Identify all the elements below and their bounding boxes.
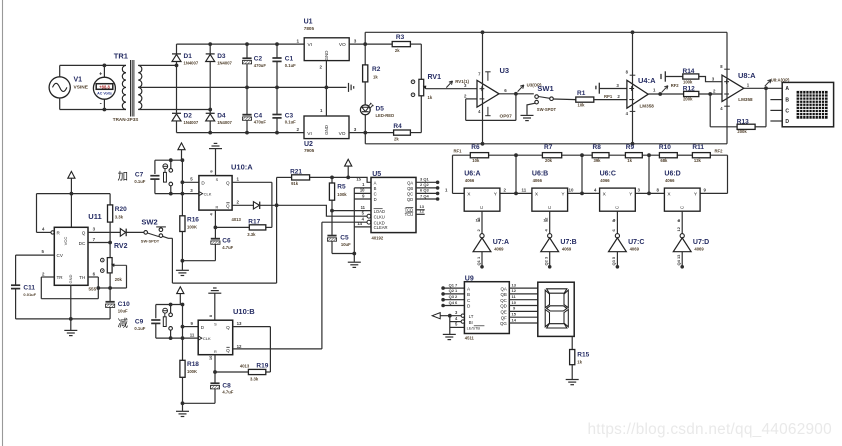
- reference cell at U4 non-inverting input: [596, 83, 627, 94]
- svg-text:R9: R9: [626, 144, 635, 151]
- wire U9 segment outputs: [509, 282, 538, 323]
- svg-text:100k: 100k: [683, 79, 693, 84]
- svg-text:0.1uF: 0.1uF: [285, 63, 296, 68]
- svg-text:68k: 68k: [660, 158, 668, 163]
- svg-text:10: 10: [512, 300, 517, 305]
- resistor R11 12k: [692, 144, 710, 163]
- regulator U2 7905: [304, 116, 357, 153]
- svg-text:6: 6: [93, 271, 96, 276]
- svg-text:QA: QA: [407, 180, 413, 185]
- svg-text:R18: R18: [187, 361, 199, 368]
- inverter U7:B 4069: [541, 234, 577, 252]
- resistor R15 1k: [570, 336, 590, 379]
- svg-text:R: R: [216, 206, 219, 210]
- svg-text:4: 4: [362, 217, 365, 222]
- resistor R3 2k: [365, 34, 421, 53]
- potentiometer RV1 1k: [411, 44, 441, 133]
- svg-text:100K: 100K: [187, 369, 197, 374]
- svg-text:7: 7: [93, 237, 96, 242]
- svg-text:2: 2: [42, 271, 45, 276]
- wire U5 output Q1: [416, 177, 439, 185]
- svg-text:2: 2: [476, 229, 481, 232]
- svg-text:VSINE: VSINE: [74, 85, 89, 91]
- svg-text:9: 9: [704, 188, 707, 193]
- svg-text:CLEAR: CLEAR: [374, 225, 388, 230]
- wire node R9-R10 to switches: [634, 155, 664, 195]
- svg-text:R10: R10: [659, 144, 671, 151]
- svg-text:Q: Q: [226, 203, 230, 208]
- svg-text:4.7uF: 4.7uF: [222, 245, 233, 250]
- transformer TR1: [113, 52, 142, 123]
- svg-text:4: 4: [455, 316, 458, 321]
- svg-text:Q4 6: Q4 6: [449, 300, 458, 305]
- svg-text:D5: D5: [376, 106, 385, 113]
- wire U10:B Qbar to CLKD column: [233, 348, 322, 350]
- svg-text:4: 4: [594, 188, 597, 193]
- svg-text:DC: DC: [79, 241, 86, 246]
- svg-text:D2: D2: [184, 112, 193, 119]
- svg-text:4066: 4066: [465, 178, 475, 183]
- svg-text:U7:D: U7:D: [693, 239, 709, 246]
- svg-text:Q3 2: Q3 2: [449, 294, 458, 299]
- svg-text:1N4007: 1N4007: [184, 120, 199, 125]
- wire U4 power pins: [626, 32, 636, 144]
- wire U7:A input terminal Q1: [476, 252, 484, 269]
- wire U9 input Q2: [441, 288, 464, 296]
- svg-text:R: R: [214, 350, 217, 354]
- analog switch U6:C 4066: [600, 171, 636, 212]
- svg-text:1N4007: 1N4007: [184, 61, 199, 66]
- svg-text:QD: QD: [500, 304, 507, 309]
- wire U6:A control pin: [476, 211, 482, 233]
- svg-text:GND: GND: [68, 274, 73, 283]
- svg-text:U2: U2: [304, 141, 313, 148]
- resistor R12 200k: [683, 85, 699, 101]
- svg-text:U7:B: U7:B: [560, 239, 576, 246]
- svg-text:39k: 39k: [594, 158, 602, 163]
- svg-text:C5: C5: [340, 235, 349, 242]
- capacitor C7 0.1uF: [134, 171, 159, 193]
- svg-text:C8: C8: [222, 382, 231, 389]
- analog switch U6:A 4066: [464, 171, 500, 212]
- svg-text:U11: U11: [88, 212, 101, 221]
- wire V1 loop: [60, 65, 126, 109]
- svg-text:4: 4: [626, 111, 629, 116]
- wire left border line: [2, 0, 4, 446]
- svg-text:GND: GND: [324, 125, 329, 135]
- svg-text:3.3k: 3.3k: [250, 377, 259, 382]
- svg-text:SW-SPDT: SW-SPDT: [141, 238, 160, 243]
- wire U7:B input terminal Q2: [544, 252, 552, 269]
- svg-text:C: C: [615, 206, 620, 209]
- svg-text:R19: R19: [256, 363, 268, 370]
- wire subtract button bottom rail to CLK: [156, 332, 198, 340]
- ground mid-rail: [349, 83, 354, 92]
- svg-text:1k: 1k: [627, 158, 632, 163]
- svg-text:3: 3: [190, 188, 193, 193]
- resistor R1 10k: [576, 90, 627, 108]
- svg-text:GND: GND: [324, 51, 329, 61]
- svg-text:20k: 20k: [115, 277, 123, 282]
- wire U5 output Q3: [416, 188, 439, 196]
- svg-text:R4: R4: [393, 123, 402, 130]
- svg-text:QC: QC: [407, 191, 413, 196]
- svg-text:V1: V1: [74, 77, 83, 84]
- svg-text:D: D: [374, 197, 377, 202]
- svg-text:4069: 4069: [494, 246, 504, 251]
- svg-text:TRAN-2P3S: TRAN-2P3S: [113, 117, 139, 122]
- wire U7:C input terminal Q3: [611, 252, 619, 269]
- svg-text:0.1uF: 0.1uF: [134, 326, 145, 331]
- wire U5 TCU stub: [416, 209, 425, 215]
- svg-text:SW-SPDT: SW-SPDT: [537, 107, 557, 112]
- svg-text:3: 3: [638, 188, 641, 193]
- svg-text:R21: R21: [290, 168, 302, 175]
- svg-text:C: C: [679, 206, 684, 209]
- svg-text:Q1 1: Q1 1: [476, 256, 481, 265]
- wire VCC to U10:B D pin: [181, 305, 199, 361]
- svg-text:U8:A: U8:A: [738, 71, 756, 80]
- svg-text:C4: C4: [254, 112, 263, 119]
- capacitor C1 0.1uF: [272, 44, 296, 87]
- diode D2 1N4007: [172, 65, 199, 132]
- flip-flop U10:B 4013: [198, 307, 255, 355]
- resistor R6 10k: [470, 144, 488, 163]
- svg-text:RV1(1): RV1(1): [455, 79, 469, 84]
- wire R14 to U8 non-inverting input: [699, 77, 722, 82]
- svg-text:D3: D3: [217, 53, 226, 60]
- svg-text:2 Q2: 2 Q2: [420, 182, 429, 187]
- ground below R16: [176, 259, 189, 276]
- svg-text:1: 1: [320, 108, 323, 113]
- wire U10:A Q to R17: [232, 182, 272, 227]
- svg-text:QG: QG: [500, 321, 507, 326]
- svg-text:U3: U3: [500, 66, 510, 75]
- svg-text:U9: U9: [465, 275, 474, 282]
- svg-text:5: 5: [455, 322, 458, 327]
- svg-text:R1: R1: [577, 90, 586, 97]
- svg-text:2: 2: [320, 65, 323, 70]
- potentiometer RV2 20k: [101, 243, 128, 282]
- svg-text:LM358: LM358: [738, 97, 753, 102]
- svg-text:4: 4: [478, 109, 481, 114]
- svg-text:4.7uF: 4.7uF: [222, 390, 233, 395]
- svg-text:减: 减: [118, 317, 129, 329]
- svg-text:-: -: [100, 101, 102, 108]
- svg-text:TCU: TCU: [405, 212, 414, 217]
- wire U9 input Q1: [441, 282, 464, 290]
- svg-text:4066: 4066: [665, 178, 675, 183]
- svg-text:Q: Q: [226, 325, 230, 330]
- svg-text:LE/STB: LE/STB: [467, 326, 481, 331]
- svg-text:CLK: CLK: [203, 336, 211, 341]
- wire diode junction to SW2 throw: [163, 205, 277, 283]
- wire secondary bottom: [138, 108, 212, 112]
- capacitor C8 4.7uF: [183, 372, 234, 403]
- svg-text:U1: U1: [304, 19, 313, 26]
- svg-text:AC Volts: AC Volts: [97, 92, 112, 96]
- svg-text:6: 6: [209, 170, 214, 173]
- svg-text:1: 1: [653, 88, 656, 93]
- svg-text:0.01uF: 0.01uF: [23, 292, 36, 297]
- svg-text:12: 12: [676, 226, 681, 231]
- svg-text:11: 11: [361, 205, 366, 210]
- wire add button bottom rail to CLK: [155, 188, 199, 196]
- wire U7:D input terminal Q4: [676, 252, 684, 269]
- svg-text:9: 9: [362, 193, 365, 198]
- svg-text:Q: Q: [226, 348, 230, 353]
- svg-text:U6:B: U6:B: [532, 171, 548, 178]
- wire SW1 lower throw to ground: [527, 103, 535, 115]
- svg-text:5: 5: [42, 249, 45, 254]
- wire R12 to U8 inverting input: [699, 88, 722, 96]
- wire add button top rail: [155, 158, 184, 174]
- svg-text:Q: Q: [226, 180, 230, 185]
- svg-text:Q4 13: Q4 13: [676, 254, 681, 266]
- svg-text:4: 4: [544, 229, 549, 232]
- input terminal arrow at U9 LT: [432, 310, 464, 319]
- svg-text:1N4007: 1N4007: [217, 120, 232, 125]
- wire U5 output Q4: [416, 193, 439, 201]
- pushbutton add: [163, 160, 173, 193]
- svg-text:3.3k: 3.3k: [247, 232, 256, 237]
- svg-text:0.1uF: 0.1uF: [285, 120, 296, 125]
- svg-text:Q3 5: Q3 5: [611, 256, 616, 265]
- svg-text:RF2: RF2: [715, 149, 724, 154]
- wire U9 LE pin: [450, 322, 465, 328]
- wire U1 ground pin: [320, 61, 327, 88]
- wire U6:D control pin: [676, 211, 682, 233]
- ground above U10:A set pin: [209, 143, 222, 175]
- capacitor C4 470uF: [242, 87, 266, 132]
- svg-text:13: 13: [237, 321, 242, 326]
- svg-text:4: 4: [42, 227, 45, 232]
- svg-text:R6: R6: [471, 144, 480, 151]
- svg-text:1: 1: [362, 182, 365, 187]
- svg-text:+88.8: +88.8: [99, 84, 110, 89]
- svg-text:100K: 100K: [187, 225, 197, 230]
- AC voltmeter: [93, 64, 115, 112]
- svg-text:TR: TR: [57, 275, 64, 280]
- svg-text:12: 12: [544, 217, 549, 222]
- wire RV2 wiper loop: [110, 265, 126, 288]
- svg-text:+: +: [99, 71, 102, 77]
- diode D4 1N4007: [206, 110, 233, 135]
- wire negative rectifier rail: [177, 127, 305, 134]
- wire node R7-R8 to switches: [567, 155, 600, 195]
- svg-text:2k: 2k: [394, 136, 399, 141]
- svg-text:RP1: RP1: [604, 94, 613, 99]
- svg-text:VO: VO: [339, 42, 346, 48]
- wire U3 power pins: [478, 32, 490, 144]
- svg-text:555: 555: [89, 287, 97, 292]
- svg-text:加: 加: [118, 170, 129, 182]
- svg-text:U5: U5: [372, 171, 381, 178]
- wire U9 input Q3: [441, 294, 464, 302]
- svg-text:12k: 12k: [694, 158, 702, 163]
- capacitor C6 4.7uF: [182, 227, 233, 260]
- svg-text:12: 12: [512, 288, 517, 293]
- capacitor C5 10uF: [327, 211, 354, 254]
- wire U10:B reset pin: [208, 355, 217, 374]
- svg-text:15: 15: [512, 312, 517, 317]
- svg-text:U7:A: U7:A: [493, 239, 509, 246]
- svg-text:470uF: 470uF: [254, 63, 267, 68]
- power flag VCC subtract channel: [177, 287, 184, 305]
- svg-text:0.1uF: 0.1uF: [134, 179, 145, 184]
- svg-text:9: 9: [513, 306, 516, 311]
- power flag VCC add channel: [178, 143, 185, 160]
- net flag RF2 at U4 output: [662, 83, 680, 93]
- diode at 555 output: [120, 229, 144, 237]
- svg-text:LT: LT: [469, 314, 474, 319]
- svg-text:3: 3: [616, 83, 619, 88]
- svg-text:https://blog.csdn.net/qq_44062: https://blog.csdn.net/qq_44062900: [588, 421, 832, 438]
- net flag U8:A(OP): [765, 77, 790, 86]
- svg-text:10uF: 10uF: [341, 242, 351, 247]
- svg-text:QC: QC: [500, 298, 507, 303]
- svg-text:A: A: [785, 86, 789, 92]
- svg-text:S: S: [214, 323, 217, 327]
- svg-text:9: 9: [191, 321, 194, 326]
- svg-text:SW2: SW2: [141, 217, 157, 226]
- svg-text:U6:C: U6:C: [600, 171, 616, 178]
- svg-text:R7: R7: [544, 144, 553, 151]
- svg-text:R8: R8: [593, 144, 602, 151]
- wire RF2 drop to U6:D: [699, 155, 727, 193]
- wire U9 input Q4: [441, 300, 464, 308]
- svg-text:4013: 4013: [232, 217, 242, 222]
- svg-text:C10: C10: [118, 301, 130, 308]
- svg-text:2: 2: [713, 88, 716, 93]
- svg-text:QF: QF: [501, 315, 507, 320]
- svg-text:7 Q4: 7 Q4: [420, 193, 429, 198]
- svg-text:10: 10: [569, 188, 574, 193]
- svg-text:R11: R11: [692, 144, 704, 151]
- regulator U1 7805: [304, 19, 357, 61]
- svg-text:10uF: 10uF: [118, 309, 128, 314]
- svg-text:4066: 4066: [533, 178, 543, 183]
- svg-text:1: 1: [297, 39, 300, 44]
- svg-text:4069: 4069: [694, 246, 704, 251]
- svg-text:LM358: LM358: [640, 103, 655, 108]
- svg-text:D4: D4: [217, 112, 226, 119]
- svg-text:4069: 4069: [562, 246, 572, 251]
- resistor R8 39k: [592, 144, 609, 163]
- svg-text:C: C: [479, 206, 484, 209]
- wire subtract button top rail: [156, 303, 185, 319]
- wire to U5 pin A: [330, 176, 371, 183]
- svg-text:R14: R14: [683, 68, 695, 75]
- wire SW1 common to R1: [553, 98, 576, 101]
- ground at U9 control pins: [443, 316, 456, 340]
- svg-text:S: S: [216, 178, 219, 182]
- svg-text:11: 11: [190, 332, 195, 337]
- source V1 (VSINE): [49, 77, 89, 99]
- svg-text:QB: QB: [407, 186, 413, 191]
- op-amp U4:A LM358: [616, 76, 656, 108]
- svg-text:R15: R15: [577, 351, 589, 358]
- resistor R21 91k: [277, 168, 332, 205]
- svg-text:4: 4: [209, 213, 214, 216]
- op-amp U8:A LM358: [722, 71, 756, 102]
- svg-text:4069: 4069: [630, 246, 640, 251]
- svg-text:RF2: RF2: [671, 83, 680, 88]
- svg-text:C2: C2: [254, 56, 263, 63]
- svg-text:15: 15: [356, 177, 361, 182]
- svg-text:Q1 7: Q1 7: [449, 282, 458, 287]
- svg-text:RV1: RV1: [428, 74, 442, 81]
- svg-text:VI: VI: [308, 42, 313, 48]
- svg-text:QE: QE: [500, 310, 506, 315]
- svg-text:R16: R16: [187, 216, 199, 223]
- svg-text:1k: 1k: [577, 360, 582, 365]
- svg-text:C6: C6: [222, 238, 231, 245]
- svg-text:10: 10: [360, 188, 365, 193]
- svg-text:4511: 4511: [465, 336, 475, 341]
- svg-text:CV: CV: [57, 253, 64, 258]
- ground below R18: [176, 401, 189, 416]
- wire U10:A reset pin: [209, 210, 218, 229]
- svg-text:QA: QA: [500, 286, 506, 291]
- power flag VCC at 555: [68, 171, 75, 227]
- wire 555 DC pin to RV2: [88, 237, 112, 245]
- wire U8 output to scope: [744, 86, 782, 90]
- ground below SW1: [521, 115, 534, 120]
- net flag RV1(1): [446, 79, 469, 87]
- net flag U3(OP): [518, 83, 542, 92]
- svg-text:13: 13: [512, 282, 517, 287]
- wire RF1 drop to U6:A: [445, 155, 464, 193]
- wire U6:B control pin: [543, 211, 549, 233]
- wire U9 BI pin: [450, 316, 465, 324]
- svg-text:U7:C: U7:C: [628, 239, 644, 246]
- svg-text:11: 11: [512, 294, 517, 299]
- svg-text:LED-RED: LED-RED: [376, 113, 395, 118]
- svg-text:R12: R12: [683, 85, 695, 92]
- wire U8 power pins: [720, 32, 730, 144]
- svg-text:2: 2: [504, 188, 507, 193]
- capacitor C3 0.1uF: [272, 87, 296, 132]
- svg-text:6: 6: [504, 88, 507, 93]
- wire U4 output node: [648, 92, 683, 96]
- wire positive rectifier rail: [177, 39, 305, 46]
- wire CLKD path from U10:B: [322, 217, 371, 349]
- svg-text:OP07: OP07: [500, 114, 513, 120]
- svg-text:2: 2: [297, 127, 300, 132]
- svg-text:R5: R5: [337, 184, 346, 191]
- svg-text:C9: C9: [135, 318, 144, 325]
- svg-text:Q2 1: Q2 1: [449, 288, 458, 293]
- svg-text:LOAD: LOAD: [374, 209, 385, 214]
- svg-text:1k: 1k: [373, 75, 378, 80]
- svg-text:3: 3: [354, 127, 357, 132]
- svg-text:U10:B: U10:B: [233, 307, 255, 316]
- decoder U9 4511: [464, 275, 509, 340]
- svg-text:8: 8: [626, 70, 629, 75]
- wire +5V top rail: [365, 30, 727, 34]
- svg-text:BI: BI: [469, 320, 473, 325]
- ground above U10:B set pin: [208, 288, 221, 320]
- svg-text:10k: 10k: [472, 158, 480, 163]
- svg-text:7905: 7905: [304, 148, 315, 153]
- op-amp U3 OP07: [464, 66, 512, 120]
- svg-text:C: C: [785, 108, 789, 114]
- label subtract (Chinese): [118, 317, 129, 329]
- svg-text:C7: C7: [135, 171, 144, 178]
- svg-text:R17: R17: [248, 219, 260, 226]
- wire U5 output Q2: [416, 182, 439, 190]
